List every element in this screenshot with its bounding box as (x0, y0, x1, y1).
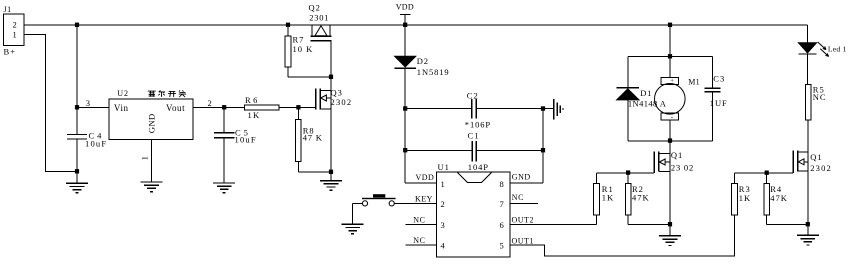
svg-text:NC: NC (813, 92, 827, 102)
svg-text:1N5819: 1N5819 (417, 67, 450, 77)
svg-text:10uF: 10uF (85, 139, 107, 149)
svg-text:2: 2 (208, 98, 212, 108)
svg-text:C3: C3 (713, 74, 725, 84)
svg-text:10 K: 10 K (293, 44, 314, 54)
svg-text:D1: D1 (640, 88, 652, 98)
svg-text:2302: 2302 (331, 97, 353, 107)
svg-text:VDD: VDD (416, 173, 435, 182)
svg-text:1K: 1K (602, 192, 614, 202)
svg-text:7: 7 (500, 199, 504, 209)
svg-text:GND: GND (512, 173, 531, 182)
svg-text:NC: NC (512, 193, 524, 202)
svg-text:2: 2 (441, 199, 445, 209)
svg-text:104P: 104P (468, 162, 489, 172)
svg-text:GND: GND (147, 114, 157, 134)
svg-text:Q3: Q3 (331, 88, 343, 98)
svg-text:B+: B+ (4, 47, 16, 57)
svg-text:J1: J1 (4, 5, 12, 14)
svg-text:U1: U1 (438, 162, 450, 172)
svg-text:Q1: Q1 (671, 150, 683, 160)
svg-text:6: 6 (500, 220, 504, 230)
svg-text:Led 1: Led 1 (828, 44, 847, 53)
svg-text:KEY: KEY (415, 195, 433, 204)
svg-text:2: 2 (13, 20, 17, 30)
svg-text:1: 1 (140, 156, 149, 160)
svg-text:47K: 47K (770, 193, 788, 203)
svg-text:VDD: VDD (396, 2, 414, 11)
svg-text:C1: C1 (468, 130, 480, 140)
svg-text:C2: C2 (467, 91, 479, 101)
svg-text:10uF: 10uF (235, 135, 257, 145)
svg-text:5: 5 (500, 241, 504, 251)
svg-text:1K: 1K (739, 193, 751, 203)
svg-text:1: 1 (13, 30, 17, 40)
svg-text:47 K: 47 K (303, 133, 323, 143)
svg-text:R7: R7 (293, 35, 305, 45)
svg-text:47K: 47K (632, 192, 650, 202)
svg-text:2301: 2301 (309, 12, 329, 22)
svg-text:R6: R6 (245, 95, 260, 105)
svg-text:U2: U2 (117, 89, 129, 98)
svg-text:NC: NC (413, 236, 425, 245)
svg-text:2302: 2302 (810, 163, 832, 173)
svg-text:1: 1 (441, 179, 445, 189)
svg-text:M1: M1 (688, 77, 700, 86)
svg-text:+: + (670, 78, 674, 85)
svg-text:*106P: *106P (465, 119, 491, 129)
svg-text:OUT1: OUT1 (512, 237, 534, 246)
svg-text:D2: D2 (417, 56, 429, 66)
svg-text:Vout: Vout (166, 103, 185, 113)
svg-text:23 02: 23 02 (671, 162, 694, 172)
svg-text:Q1: Q1 (810, 152, 822, 162)
svg-text:1K: 1K (248, 110, 261, 120)
svg-text:3: 3 (86, 98, 90, 108)
svg-text:Q2: Q2 (309, 3, 321, 13)
svg-text:1UF: 1UF (710, 98, 728, 108)
svg-text:8: 8 (500, 179, 504, 189)
svg-text:1N4148 A: 1N4148 A (628, 98, 667, 108)
svg-text:3: 3 (441, 220, 445, 230)
svg-text:Vin: Vin (114, 103, 129, 113)
svg-text:NC: NC (413, 216, 425, 225)
svg-text:OUT2: OUT2 (512, 216, 534, 225)
